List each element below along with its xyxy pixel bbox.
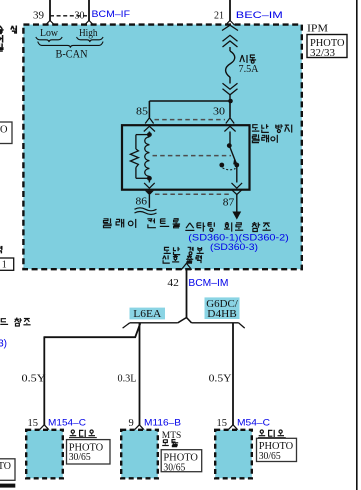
svg-text:BCM–IM: BCM–IM bbox=[188, 278, 228, 289]
svg-text:1: 1 bbox=[2, 260, 7, 271]
svg-text:0.3L: 0.3L bbox=[118, 374, 137, 385]
svg-text:D4HB: D4HB bbox=[207, 309, 237, 320]
svg-text:15: 15 bbox=[217, 418, 228, 429]
svg-text:0.5Y: 0.5Y bbox=[209, 374, 232, 385]
svg-text:9: 9 bbox=[129, 418, 134, 429]
svg-text:86: 86 bbox=[136, 197, 148, 208]
svg-text:32/33: 32/33 bbox=[310, 48, 335, 59]
svg-text:B-CAN: B-CAN bbox=[56, 48, 89, 60]
svg-text:39: 39 bbox=[33, 10, 45, 22]
svg-text:M54–C: M54–C bbox=[237, 418, 270, 429]
svg-text:60-3): 60-3) bbox=[0, 339, 7, 350]
svg-text:15: 15 bbox=[28, 418, 39, 429]
svg-text:30: 30 bbox=[213, 107, 225, 118]
svg-text:87: 87 bbox=[223, 198, 235, 209]
svg-text:0.5Y: 0.5Y bbox=[22, 374, 46, 385]
svg-text:PHOTO: PHOTO bbox=[0, 461, 11, 472]
svg-text:PHOTO: PHOTO bbox=[0, 125, 8, 136]
svg-text:IPM: IPM bbox=[307, 23, 328, 35]
svg-text:30/65: 30/65 bbox=[163, 462, 185, 473]
svg-text:Low: Low bbox=[40, 27, 58, 39]
svg-text:30: 30 bbox=[75, 10, 85, 22]
svg-text:7.5A: 7.5A bbox=[239, 64, 260, 75]
svg-text:(SD360-3): (SD360-3) bbox=[210, 242, 258, 253]
svg-text:M154–C: M154–C bbox=[48, 418, 86, 429]
svg-text:G6DC/: G6DC/ bbox=[206, 299, 238, 310]
svg-text:BEC–IM: BEC–IM bbox=[236, 10, 283, 21]
svg-text:L6EA: L6EA bbox=[133, 309, 162, 320]
svg-text:30/65: 30/65 bbox=[259, 451, 281, 462]
svg-text:42: 42 bbox=[167, 278, 179, 289]
svg-text:M116–B: M116–B bbox=[144, 418, 181, 429]
svg-text:High: High bbox=[79, 27, 98, 39]
svg-text:21: 21 bbox=[214, 10, 224, 22]
svg-text:BCM–IF: BCM–IF bbox=[92, 9, 131, 20]
svg-text:85: 85 bbox=[136, 107, 148, 118]
svg-text:30/65: 30/65 bbox=[69, 452, 91, 463]
